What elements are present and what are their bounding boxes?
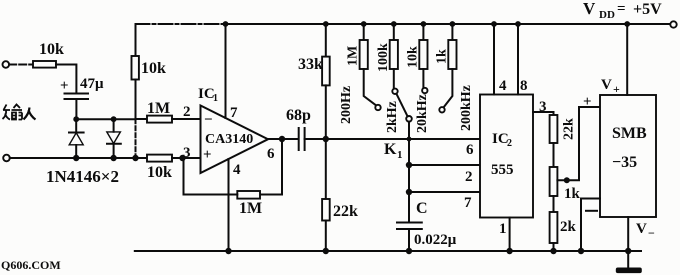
VDD label V DD = +5V (583, 0, 662, 21)
input terminal 2 (bottom) (3, 155, 10, 162)
switch K1 arm (396, 94, 407, 117)
svg-text:C: C (416, 200, 428, 217)
svg-text:V: V (583, 0, 596, 18)
node dot divider tap (564, 177, 570, 183)
label 200Hz (339, 86, 354, 124)
svg-text:2k: 2k (560, 219, 577, 235)
V+ label (601, 77, 620, 96)
capacitor 47u (electrolytic) (60, 76, 104, 99)
pin 6 label of 555 (466, 142, 474, 158)
op-amp IC1 label (198, 86, 218, 104)
switch contact 200Hz (375, 105, 380, 110)
label 20kHz (415, 94, 430, 133)
timing resistor 1k (435, 24, 457, 108)
svg-text:Q606.COM: Q606.COM (1, 258, 61, 272)
switch contact 200kHz (439, 107, 444, 112)
svg-text:3: 3 (539, 99, 547, 115)
node dot 2k ground (550, 248, 556, 254)
svg-text:1M: 1M (147, 100, 170, 117)
node dot C on ground rail (406, 248, 412, 254)
svg-text:−: − (204, 112, 213, 128)
node dot 68p to divider (323, 136, 329, 142)
pin 3 wire of 555 (533, 111, 554, 113)
pin 7 label of 555 (464, 195, 472, 211)
svg-text:+5V: +5V (633, 1, 662, 18)
wire pin2 of 555 (409, 164, 480, 166)
watermark Q606.COM (1, 258, 61, 272)
svg-text:V: V (601, 77, 612, 93)
svg-text:22k: 22k (562, 118, 577, 140)
node dot D2 bottom (110, 155, 116, 161)
V+ supply wire to SMB (626, 24, 628, 95)
label 200kHz (459, 85, 474, 131)
switch K1 pole (406, 116, 412, 122)
node dot 10k rail (421, 21, 427, 27)
svg-text:1k: 1k (564, 186, 581, 202)
svg-text:K: K (384, 141, 397, 158)
node dot pole/pin7 (406, 189, 412, 195)
svg-text:200kHz: 200kHz (459, 85, 474, 131)
node dot V+ rail (624, 21, 630, 27)
pin 4 label (233, 162, 241, 178)
node dot pin4 on rail (225, 248, 231, 254)
label 1N4146x2 (46, 167, 119, 186)
svg-text:47μ: 47μ (80, 76, 104, 92)
vertical wire from rail to 10k pull resistor (135, 24, 137, 56)
resistor 33k (298, 24, 330, 199)
svg-text:1M: 1M (346, 46, 361, 66)
svg-text:10k: 10k (406, 46, 421, 68)
input terminal 1 (top) (3, 61, 10, 68)
node dot 1k rail (450, 21, 456, 27)
op-amp output wire (268, 138, 298, 140)
node dot pole/pin2 (406, 162, 412, 168)
pin 8 wire of 555 (517, 24, 519, 95)
resistor 22k (divider top) (550, 112, 577, 167)
divider tap wire to SMB plus (557, 107, 600, 180)
label 2kHz (385, 101, 400, 133)
svg-text:SMB: SMB (612, 125, 647, 142)
svg-text:33k: 33k (298, 56, 323, 73)
resistor 10k (to pin3) (147, 155, 201, 181)
svg-text:2: 2 (507, 138, 512, 149)
svg-text:1N4146×2: 1N4146×2 (46, 167, 119, 186)
capacitor 68p (286, 107, 480, 150)
svg-text:2kHz: 2kHz (385, 101, 400, 133)
svg-text:+: + (613, 82, 620, 96)
svg-text:1: 1 (213, 93, 218, 104)
resistor 10k (input series) (33, 41, 64, 68)
svg-text:−: − (648, 226, 655, 240)
diode top wire (76, 118, 135, 120)
VDD terminal circle (670, 21, 676, 27)
svg-text:200Hz: 200Hz (339, 86, 354, 124)
svg-text:6: 6 (267, 146, 275, 162)
wire terminal1 to R 10k (9, 64, 33, 66)
input bottom wire to op-amp pin3 (10, 157, 147, 159)
pin 7 label (230, 105, 238, 121)
K1 label (384, 141, 403, 161)
SMB plus input label (583, 94, 592, 110)
timing resistor 100k (376, 24, 398, 89)
svg-text:+: + (203, 147, 212, 163)
node dot pin4 rail (491, 21, 497, 27)
node dot 100k rail (391, 21, 397, 27)
svg-text:20kHz: 20kHz (415, 94, 430, 133)
node dot SMB minus ground (578, 248, 584, 254)
SMB minus input stub (581, 199, 600, 252)
pin 2 label (183, 104, 191, 120)
svg-text:4: 4 (499, 78, 507, 94)
node dot pin3 feedback tap (179, 155, 185, 161)
pin 4 wire of 555 (493, 24, 495, 95)
pin 4 wire to ground rail (228, 159, 230, 251)
op-amp U1 CA3140 triangle (201, 106, 269, 174)
wire pin7 of 555 (409, 191, 480, 193)
top supply rail VDD (136, 23, 674, 25)
node dot SMB bottom ground (625, 248, 631, 254)
pin 3 label of 555 (539, 99, 547, 115)
pin 4 label of 555 (499, 78, 507, 94)
svg-text:=: = (617, 1, 626, 17)
pin 2 label of 555 (465, 169, 473, 185)
switch contact 2kHz (392, 89, 397, 94)
svg-text:2: 2 (183, 104, 191, 120)
svg-text:6: 6 (466, 142, 474, 158)
wire cap to diode node (75, 99, 77, 119)
wire R10k to cap 47u (56, 65, 76, 92)
svg-text:100k: 100k (376, 43, 391, 72)
svg-text:68p: 68p (286, 107, 311, 124)
svg-text:10k: 10k (141, 60, 166, 77)
node dot 33k on rail (323, 21, 329, 27)
SMB module box (600, 95, 656, 217)
pin 1 wire of 555 (509, 218, 511, 252)
node dot vertical10k bottom (132, 155, 138, 161)
resistor 10k (upper pull) (132, 56, 167, 80)
svg-text:10k: 10k (39, 41, 64, 58)
svg-text:+: + (60, 78, 69, 94)
bottom ground rail (135, 250, 641, 252)
svg-text:1: 1 (397, 149, 403, 161)
V- label (636, 221, 655, 240)
node dot pin7 on rail (223, 21, 229, 27)
svg-text:1: 1 (499, 221, 507, 237)
svg-text:0.022μ: 0.022μ (414, 232, 457, 248)
svg-text:DD: DD (599, 9, 615, 21)
capacitor C 0.022u (397, 200, 457, 251)
svg-text:1k: 1k (435, 49, 450, 64)
node dot 22k on ground rail (323, 248, 329, 254)
pin 1 label of 555 (499, 221, 507, 237)
svg-text:7: 7 (230, 105, 238, 121)
svg-text:−35: −35 (612, 154, 637, 171)
node dot D1 bottom (73, 155, 79, 161)
wire 10k to input wire (dashed in scan) (135, 80, 137, 159)
label shuru (input) glyphs (3, 105, 36, 120)
svg-text:8: 8 (520, 78, 528, 94)
svg-text:1M: 1M (239, 200, 262, 217)
svg-text:+: + (583, 94, 592, 110)
pin 8 label of 555 (520, 78, 528, 94)
SMB minus input label (586, 210, 597, 212)
timing resistor 1M (346, 24, 377, 106)
node dot 1M rail (361, 21, 367, 27)
resistor 2k (divider bottom) (550, 212, 577, 251)
svg-text:555: 555 (491, 162, 514, 178)
resistor 22k (mid) (322, 199, 358, 251)
pin 6 label (267, 146, 275, 162)
switch contact 20kHz (422, 88, 427, 93)
diode D2 (cathode down) (107, 119, 121, 158)
svg-text:10k: 10k (147, 164, 172, 181)
resistor 1M (to pin2) (136, 100, 201, 123)
node dot pin8 rail (515, 21, 521, 27)
pin 7 wire to VDD (225, 24, 227, 118)
node dot pin1 ground (506, 248, 512, 254)
switch pole wire down (408, 122, 410, 223)
node dot pole on main wire (407, 137, 412, 142)
ground symbol (616, 251, 642, 273)
svg-text:7: 7 (464, 195, 472, 211)
svg-text:CA3140: CA3140 (205, 132, 253, 147)
SMB bottom wire to ground (627, 217, 629, 251)
timing resistor 10k (406, 24, 428, 88)
feedback resistor 1M (184, 139, 283, 217)
node dot output (279, 136, 285, 142)
node dot diode2 top (111, 116, 117, 122)
diode D1 (cathode up) (69, 119, 84, 158)
node dot diode1 top (73, 116, 79, 122)
svg-text:4: 4 (233, 162, 241, 178)
svg-text:2: 2 (465, 169, 473, 185)
IC2 555 timer box (480, 95, 533, 218)
pin 3 label (183, 145, 191, 161)
resistor 1k (divider mid) (550, 167, 581, 212)
svg-text:V: V (636, 221, 647, 237)
svg-text:22k: 22k (333, 203, 358, 220)
